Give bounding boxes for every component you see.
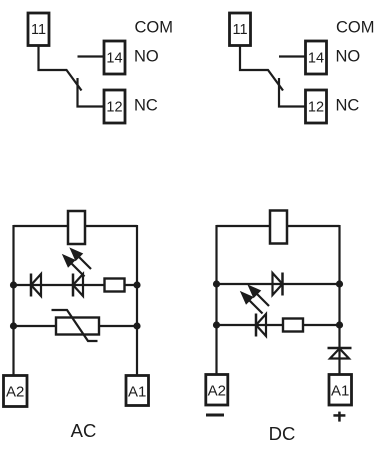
svg-text:A2: A2 [6, 384, 24, 401]
svg-text:AC: AC [71, 420, 97, 441]
svg-text:A2: A2 [208, 383, 226, 400]
svg-text:A1: A1 [331, 383, 349, 400]
svg-text:A1: A1 [128, 384, 146, 401]
svg-text:DC: DC [269, 423, 296, 444]
